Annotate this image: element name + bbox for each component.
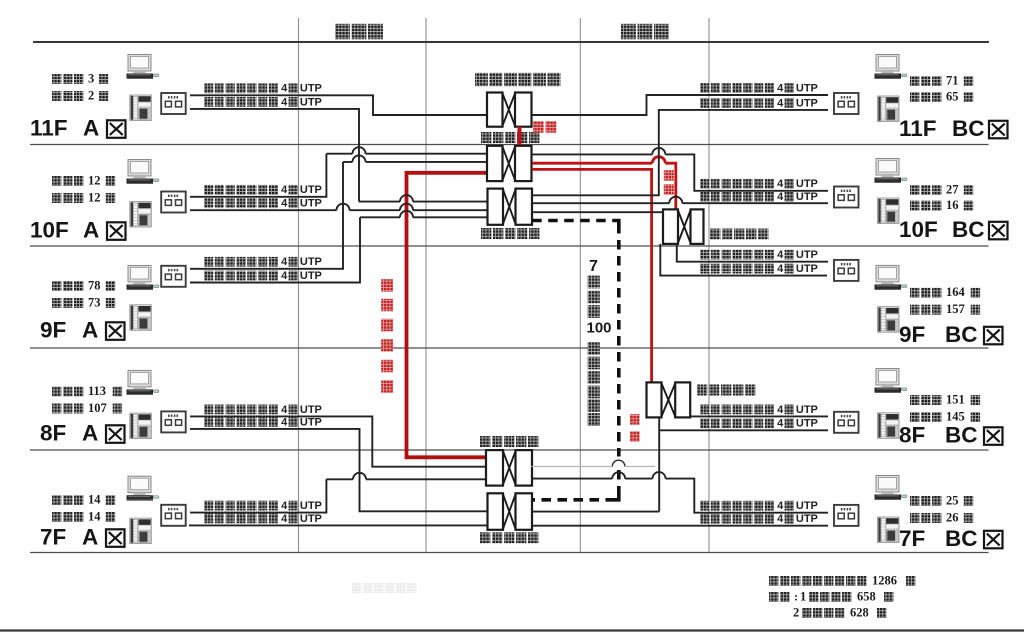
- svg-text:1: 1: [800, 589, 806, 603]
- svg-text:14: 14: [88, 492, 101, 506]
- distribution frame 九楼配线箱: [663, 209, 704, 244]
- svg-text:UTP: UTP: [300, 500, 322, 512]
- svg-text:151: 151: [946, 392, 965, 406]
- distribution frame U5 语音配线间 lower: [488, 493, 533, 530]
- svg-text:7F: 7F: [899, 526, 925, 551]
- telephone icon 7F BC: [878, 517, 900, 543]
- svg-text:8F: 8F: [899, 422, 925, 447]
- svg-text:UTP: UTP: [796, 178, 818, 190]
- svg-text:4: 4: [281, 83, 288, 95]
- telephone icon 10F BC: [878, 198, 900, 224]
- svg-text:14: 14: [88, 509, 101, 523]
- svg-text:4: 4: [777, 404, 784, 416]
- label UTP horizontal cable 10F BC x2: [700, 179, 709, 189]
- label 语音配线间 (lower): [480, 532, 490, 543]
- svg-text:UTP: UTP: [300, 184, 322, 196]
- computer icon 10F A: [127, 160, 159, 185]
- label UTP horizontal cable 9F A x2: [204, 257, 213, 267]
- wire 11F voice into U3 (from riser): [359, 195, 488, 202]
- svg-text:4: 4: [281, 513, 288, 525]
- svg-text:4: 4: [281, 500, 288, 512]
- label 语音点 145 个 right: [910, 412, 919, 422]
- distribution frame 八楼配线箱: [647, 382, 691, 417]
- wall outlet 8F BC: [834, 412, 859, 433]
- svg-text:4: 4: [281, 198, 288, 210]
- svg-text:A: A: [82, 317, 98, 342]
- wire 8F A data riser into U4: [190, 416, 486, 466]
- wire U3 voice riser down to 9F A voice: [190, 217, 360, 282]
- wire U2 right to 10F BC data: [532, 148, 829, 191]
- svg-text:7: 7: [589, 258, 598, 275]
- label 八楼配线箱: [697, 385, 707, 396]
- svg-text:4: 4: [777, 500, 784, 512]
- shaft grid line 4: [708, 18, 710, 553]
- computer icon 8F BC: [875, 369, 907, 394]
- telephone icon 11F BC: [878, 96, 900, 122]
- telephone icon 7F A: [130, 518, 152, 544]
- label UTP horizontal cable 10F A x2: [204, 185, 213, 195]
- wire riser 11F A voice down to U3: [190, 109, 359, 202]
- wall outlet 11F A: [161, 93, 186, 114]
- svg-text:16: 16: [946, 198, 959, 212]
- svg-text:BC: BC: [945, 422, 978, 447]
- label UTP horizontal cable 9F BC x2: [700, 250, 709, 260]
- svg-text:A: A: [83, 217, 99, 242]
- label 语音点 65 个 right: [910, 92, 919, 102]
- svg-text:4: 4: [281, 256, 288, 268]
- svg-text:UTP: UTP: [300, 404, 322, 416]
- svg-text:73: 73: [88, 295, 101, 309]
- svg-text:27: 27: [946, 182, 959, 196]
- label 数据点 78 个: [52, 281, 61, 291]
- svg-text:4: 4: [777, 263, 784, 275]
- label 数据点 113 个: [52, 387, 61, 397]
- label 数据点 14 个: [52, 495, 61, 505]
- wire U3 right to 10F BC voice: [532, 197, 828, 203]
- wire into U2 left upper: [326, 147, 487, 154]
- label 语音点 157 个 right: [910, 305, 919, 315]
- label 语音点 16 个 right: [910, 201, 919, 211]
- label 数据点 151 个 right: [910, 395, 919, 405]
- wall outlet 9F BC: [834, 260, 859, 281]
- label 语音点 12 个: [52, 193, 61, 203]
- svg-text:100: 100: [586, 319, 611, 336]
- svg-text:4: 4: [281, 96, 288, 108]
- svg-text:4: 4: [777, 249, 784, 261]
- label shaft 线井一: [335, 24, 350, 40]
- svg-text:658: 658: [857, 589, 876, 603]
- svg-text:12: 12: [88, 173, 101, 187]
- computer icon 9F BC: [875, 265, 907, 290]
- computer icon 10F BC: [875, 159, 907, 184]
- wire 10F A data riser into U2: [190, 154, 326, 197]
- shaft grid line 3: [579, 18, 581, 553]
- shaft grid line 1: [298, 18, 300, 553]
- caption 共计综合布线信息点 1286 个: [769, 576, 778, 586]
- svg-text:BC: BC: [945, 526, 978, 551]
- label shaft 线井二: [621, 24, 636, 40]
- faint wire U4 right: [531, 466, 655, 468]
- svg-text:4: 4: [777, 97, 784, 109]
- label 数据配线间: [481, 132, 491, 143]
- svg-text:145: 145: [946, 409, 965, 423]
- svg-text:9F: 9F: [40, 317, 66, 342]
- telephone icon 11F A: [130, 95, 152, 121]
- wire 11F A data into U1: [190, 95, 487, 115]
- bottom border line: [0, 629, 1024, 631]
- svg-text:4: 4: [777, 418, 784, 430]
- svg-text::: :: [794, 589, 798, 603]
- wall outlet 8F A: [161, 411, 186, 432]
- distribution frame U2 数据配线间: [487, 146, 532, 181]
- label 数据点 3 个: [52, 74, 61, 84]
- label UTP horizontal cable 7F BC x2: [700, 501, 709, 511]
- svg-text:UTP: UTP: [796, 191, 818, 203]
- svg-text:628: 628: [850, 605, 869, 619]
- floor line 7F bottom: [30, 552, 989, 554]
- svg-text:157: 157: [946, 302, 965, 316]
- svg-text:164: 164: [946, 285, 966, 299]
- label UTP horizontal cable 8F A x2: [204, 405, 213, 415]
- wire 8F A voice riser into U5: [190, 429, 488, 511]
- computer icon 7F A: [127, 476, 159, 501]
- svg-text:UTP: UTP: [796, 249, 818, 261]
- svg-text:UTP: UTP: [796, 500, 818, 512]
- svg-text:4: 4: [777, 191, 784, 203]
- telephone icon 8F BC: [878, 413, 900, 439]
- svg-text:UTP: UTP: [300, 270, 322, 282]
- distribution frame U1 十一楼配线箱: [487, 93, 532, 127]
- svg-text:65: 65: [946, 89, 959, 103]
- label 语音配线间 below U3: [481, 228, 491, 239]
- label 十一楼配线箱: [475, 73, 488, 87]
- svg-text:BC: BC: [952, 116, 985, 141]
- svg-text:25: 25: [946, 493, 959, 507]
- computer icon 7F BC: [875, 476, 907, 501]
- wall outlet 7F BC: [834, 505, 859, 526]
- svg-text:UTP: UTP: [796, 97, 818, 109]
- svg-text:BC: BC: [945, 322, 978, 347]
- label 数据配线间 (lower): [480, 436, 490, 447]
- telephone icon 8F A: [130, 413, 152, 439]
- hop arc of faint wire over dashed trunk: [612, 460, 625, 466]
- wire 九楼 to 9F BC voice: [660, 244, 827, 276]
- svg-text:7F: 7F: [40, 524, 66, 549]
- svg-text:8F: 8F: [40, 420, 66, 445]
- label UTP horizontal cable 8F BC x2: [700, 405, 709, 415]
- svg-text:4: 4: [281, 404, 288, 416]
- svg-text:A: A: [83, 115, 99, 140]
- fiber 六芯多模光纤 loop left: [407, 173, 488, 458]
- svg-text:4: 4: [281, 270, 288, 282]
- svg-text:1286: 1286: [872, 573, 897, 587]
- wire U1 to 11F BC data outlet: [532, 95, 829, 115]
- svg-text:11F: 11F: [899, 116, 937, 141]
- distribution frame U4 数据配线间 lower: [486, 450, 532, 486]
- svg-text:UTP: UTP: [300, 83, 322, 95]
- svg-text:UTP: UTP: [300, 96, 322, 108]
- svg-text:4: 4: [777, 82, 784, 94]
- computer icon 9F A: [127, 266, 159, 291]
- label 语音点 14 个: [52, 512, 61, 522]
- svg-text:113: 113: [88, 384, 106, 398]
- telephone icon 9F BC: [878, 307, 900, 333]
- svg-text:11F: 11F: [30, 115, 68, 140]
- wall outlet 7F A: [161, 505, 186, 526]
- svg-text:UTP: UTP: [796, 263, 818, 275]
- wire U5 right voice riser to 八楼: [532, 511, 659, 513]
- svg-text:78: 78: [88, 278, 101, 292]
- label UTP horizontal cable 11F A x2: [204, 83, 213, 93]
- floor line 10F/9F: [30, 245, 989, 247]
- svg-text:A: A: [82, 524, 98, 549]
- fiber U2 to 九楼配线箱: [532, 157, 676, 210]
- cable 7根3类100对大对数电缆 dashed trunk: [532, 221, 619, 500]
- svg-text:4: 4: [281, 184, 288, 196]
- floor line top (11F ceiling): [33, 41, 989, 43]
- label 语音点 73 个: [52, 298, 61, 308]
- svg-text:BC: BC: [952, 217, 985, 242]
- wire 7F A data riser into U4: [190, 479, 326, 512]
- wall outlet 10F A: [161, 192, 186, 213]
- fiber U2 to 八楼配线箱: [532, 169, 652, 382]
- label 语音点 26 个 right: [910, 513, 919, 523]
- faint watermark: [352, 583, 361, 593]
- svg-text:UTP: UTP: [300, 513, 322, 525]
- svg-text:2: 2: [793, 605, 799, 619]
- label 光纤 vertical red near 九楼 riser: [664, 170, 674, 181]
- svg-text:4: 4: [777, 178, 784, 190]
- wire U3 right riser up to 11F BC voice: [532, 110, 828, 195]
- wire into U2 left lower: [343, 155, 487, 162]
- fiber link U1-U2 光纤: [518, 127, 522, 146]
- svg-text:10F: 10F: [30, 217, 69, 242]
- floor line 9F/8F: [30, 347, 989, 349]
- wire 10F A voice into U3: [190, 204, 488, 210]
- label 六芯多模光纤 vertical red: [381, 279, 393, 292]
- voice riser from 八楼 down to U5, with 8F BC voice branch: [659, 417, 828, 511]
- svg-text:12: 12: [88, 190, 101, 204]
- telephone icon 9F A: [130, 305, 152, 331]
- wire U5 right to 7F BC voice: [532, 525, 828, 527]
- wire 八楼 to 8F BC data: [690, 415, 828, 417]
- svg-text:4: 4: [281, 416, 288, 428]
- computer icon 11F A: [127, 55, 159, 80]
- svg-text:UTP: UTP: [796, 418, 818, 430]
- computer icon 11F BC: [875, 55, 907, 80]
- label 数据点 12 个: [52, 176, 61, 186]
- wire 九楼 to 9F BC data: [677, 244, 828, 262]
- label 数据点 71 个 right: [910, 76, 919, 86]
- svg-text:9F: 9F: [899, 322, 925, 347]
- floor line 8F/7F: [30, 449, 989, 451]
- label 语音点 107 个: [52, 404, 61, 414]
- label 九楼配线箱: [710, 229, 720, 240]
- svg-text:3: 3: [88, 71, 94, 85]
- label 光纤 vertical red near 八楼: [630, 414, 640, 425]
- svg-text:A: A: [82, 420, 98, 445]
- svg-text:UTP: UTP: [300, 416, 322, 428]
- label 数据点 164 个 right: [910, 288, 919, 298]
- label 光纤 red: [533, 121, 544, 133]
- wall outlet 9F A: [161, 266, 186, 287]
- caption 其中 1 数据点 658 个: [769, 592, 778, 602]
- svg-text:4: 4: [777, 513, 784, 525]
- label 语音点 2 个: [52, 91, 61, 101]
- label 数据点 27 个 right: [910, 185, 919, 195]
- label 数据点 25 个 right: [910, 496, 919, 506]
- wire U4 right to 7F BC data: [531, 472, 828, 513]
- svg-text:UTP: UTP: [300, 256, 322, 268]
- label UTP horizontal cable 11F BC x2: [700, 83, 709, 93]
- svg-text:71: 71: [946, 73, 959, 87]
- svg-text:UTP: UTP: [796, 513, 818, 525]
- wall outlet 10F BC: [834, 187, 859, 208]
- computer icon 8F A: [127, 370, 159, 395]
- label UTP horizontal cable 7F A x2: [204, 501, 213, 511]
- svg-text:UTP: UTP: [796, 404, 818, 416]
- svg-text:26: 26: [946, 510, 959, 524]
- svg-text:107: 107: [88, 401, 107, 415]
- telephone icon 10F A: [130, 202, 152, 228]
- wall outlet 11F BC: [834, 93, 859, 114]
- wire 9F A data riser into U2: [190, 162, 343, 269]
- svg-text:UTP: UTP: [300, 198, 322, 210]
- wire 7F A voice into U5: [189, 524, 488, 526]
- svg-text:UTP: UTP: [796, 82, 818, 94]
- wire U3 right into 九楼配线箱: [532, 211, 663, 213]
- svg-text:2: 2: [88, 88, 94, 102]
- shaft grid line 2: [425, 18, 427, 553]
- svg-text:10F: 10F: [899, 217, 938, 242]
- floor line 11F/10F: [30, 144, 989, 146]
